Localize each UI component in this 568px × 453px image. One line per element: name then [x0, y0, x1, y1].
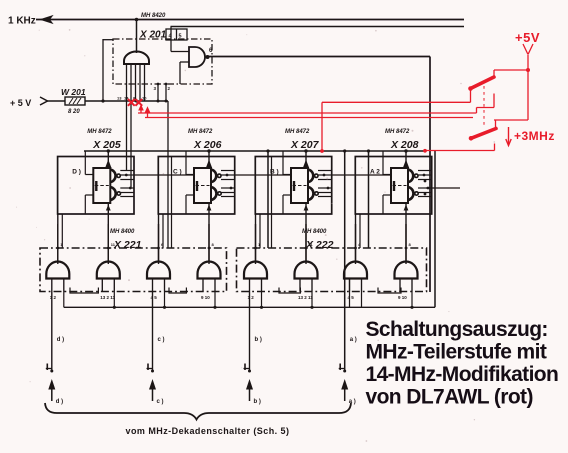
svg-text:+3MHz: +3MHz [514, 129, 555, 143]
svg-text:d ): d ) [57, 337, 64, 343]
svg-text:c ): c ) [157, 399, 164, 405]
svg-text:1 KHz: 1 KHz [8, 16, 36, 27]
svg-text:X 207: X 207 [290, 139, 320, 151]
svg-text:8: 8 [409, 242, 412, 247]
svg-text:8: 8 [212, 242, 215, 247]
svg-text:4 5: 4 5 [151, 295, 158, 300]
svg-text:d ): d ) [56, 399, 63, 405]
svg-text:a ): a ) [350, 337, 357, 343]
svg-text:1 2: 1 2 [248, 295, 255, 300]
svg-text:b ): b ) [254, 399, 261, 405]
svg-text:13: 13 [117, 96, 122, 101]
svg-text:MH 8472: MH 8472 [385, 129, 410, 135]
svg-text:c ): c ) [158, 337, 165, 343]
svg-text:X 208: X 208 [390, 139, 419, 151]
svg-text:MH 8472: MH 8472 [87, 129, 112, 135]
svg-text:4 5: 4 5 [348, 295, 355, 300]
svg-text:9 10: 9 10 [398, 295, 407, 300]
svg-text:von DL7AWL (rot): von DL7AWL (rot) [366, 386, 533, 409]
svg-text:Schaltungsauszug:: Schaltungsauszug: [366, 318, 548, 341]
svg-text:b ): b ) [255, 337, 262, 343]
svg-text:MH 8472: MH 8472 [188, 129, 213, 135]
svg-text:2: 2 [168, 86, 171, 91]
svg-text:X 206: X 206 [193, 139, 222, 151]
svg-text:+ 5 V: + 5 V [10, 98, 31, 108]
svg-text:vom MHz-Dekadenschalter (Sch.: vom MHz-Dekadenschalter (Sch. 5) [126, 426, 290, 436]
svg-text:3: 3 [154, 86, 157, 91]
svg-text:9 10: 9 10 [201, 295, 210, 300]
svg-text:D ): D ) [72, 169, 81, 176]
svg-text:MH 8420: MH 8420 [141, 13, 166, 19]
svg-text:14-MHz-Modifikation: 14-MHz-Modifikation [366, 363, 559, 386]
svg-text:X 205: X 205 [92, 139, 121, 151]
svg-text:X 201: X 201 [139, 30, 167, 41]
svg-text:8 20: 8 20 [68, 109, 80, 115]
svg-text:MH 8472: MH 8472 [285, 129, 310, 135]
svg-text:13 2 11: 13 2 11 [100, 295, 115, 300]
svg-text:MHz-Teilerstufe mit: MHz-Teilerstufe mit [366, 341, 547, 364]
svg-text:+5V: +5V [515, 30, 540, 45]
svg-text:a ): a ) [349, 399, 356, 405]
svg-text:X 221: X 221 [113, 239, 142, 251]
svg-text:1 2: 1 2 [50, 295, 57, 300]
svg-text:MH 8400: MH 8400 [110, 229, 135, 235]
svg-text:W 201: W 201 [61, 87, 86, 97]
svg-text:5: 5 [179, 34, 182, 40]
svg-text:13 2 11: 13 2 11 [298, 295, 313, 300]
